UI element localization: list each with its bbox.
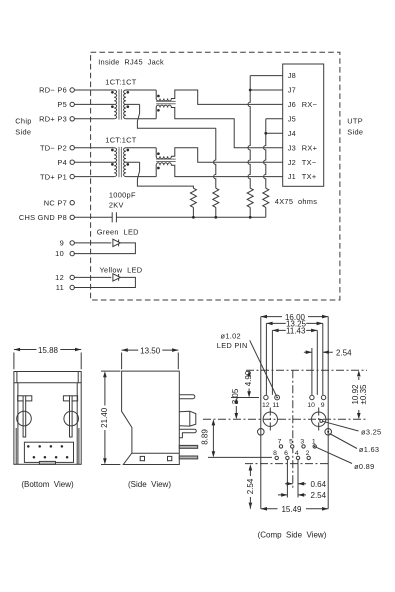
svg-text:11: 11: [56, 283, 64, 292]
svg-text:J7: J7: [288, 86, 296, 95]
svg-text:J2: J2: [288, 158, 296, 167]
svg-text:J3: J3: [288, 143, 296, 152]
svg-text:J8: J8: [288, 71, 296, 80]
svg-text:Inside RJ45 Jack: Inside RJ45 Jack: [98, 58, 164, 67]
svg-text:J5: J5: [288, 114, 296, 123]
svg-text:1000pF: 1000pF: [109, 191, 136, 200]
svg-text:21.40: 21.40: [100, 407, 109, 428]
svg-text:1: 1: [312, 438, 316, 445]
svg-text:Side: Side: [347, 127, 363, 136]
svg-text:4X75 ohms: 4X75 ohms: [275, 197, 317, 206]
svg-text:12: 12: [55, 273, 64, 282]
svg-text:1CT:1CT: 1CT:1CT: [105, 78, 136, 87]
svg-text:Chip: Chip: [15, 117, 31, 126]
svg-text:2: 2: [306, 450, 310, 457]
svg-text:TD− P2: TD− P2: [40, 143, 67, 152]
svg-text:UTP: UTP: [347, 117, 363, 126]
svg-text:9: 9: [60, 239, 64, 248]
svg-text:TD+ P1: TD+ P1: [40, 172, 67, 181]
svg-text:9: 9: [321, 402, 325, 409]
svg-text:11: 11: [272, 402, 279, 409]
svg-text:15.88: 15.88: [38, 346, 59, 355]
svg-text:11.43: 11.43: [286, 327, 306, 336]
svg-text:P5: P5: [57, 100, 67, 109]
svg-text:3: 3: [300, 438, 304, 445]
svg-text:13.50: 13.50: [140, 346, 161, 355]
svg-text:TX+: TX+: [302, 172, 317, 181]
svg-text:10: 10: [307, 402, 315, 409]
svg-text:J4: J4: [288, 129, 296, 138]
svg-text:0.64: 0.64: [311, 480, 327, 489]
svg-text:8.89: 8.89: [200, 429, 209, 445]
svg-text:ø0.89: ø0.89: [354, 462, 374, 471]
svg-text:15.49: 15.49: [281, 505, 302, 514]
svg-text:P4: P4: [57, 158, 67, 167]
svg-text:10: 10: [55, 249, 64, 258]
svg-text:J1: J1: [288, 172, 296, 181]
svg-text:7: 7: [278, 438, 282, 445]
svg-text:4: 4: [295, 450, 299, 457]
svg-text:(Comp Side View): (Comp Side View): [258, 531, 327, 540]
svg-text:RX−: RX−: [302, 100, 317, 109]
svg-text:TX−: TX−: [302, 158, 317, 167]
svg-text:(Side View): (Side View): [128, 480, 171, 489]
svg-text:NC P7: NC P7: [44, 198, 67, 207]
svg-text:ø3.25: ø3.25: [361, 428, 381, 437]
svg-text:2.54: 2.54: [311, 491, 327, 500]
svg-text:Green LED: Green LED: [97, 228, 139, 237]
svg-text:J6: J6: [288, 100, 296, 109]
svg-text:5: 5: [289, 438, 293, 445]
svg-text:(Bottom View): (Bottom View): [21, 480, 74, 489]
svg-text:6: 6: [284, 450, 288, 457]
svg-text:4.90: 4.90: [244, 370, 253, 386]
svg-text:±0.35: ±0.35: [359, 384, 368, 405]
svg-text:Side: Side: [15, 127, 31, 136]
svg-text:RX+: RX+: [302, 143, 317, 152]
svg-text:2KV: 2KV: [109, 200, 124, 209]
svg-text:12: 12: [262, 402, 270, 409]
svg-text:ø1.02: ø1.02: [221, 332, 241, 341]
svg-text:RD+ P3: RD+ P3: [39, 115, 67, 124]
svg-text:ø1.63: ø1.63: [359, 445, 379, 454]
svg-text:8: 8: [273, 450, 277, 457]
svg-text:Yellow LED: Yellow LED: [100, 265, 143, 274]
svg-text:CHS GND P8: CHS GND P8: [19, 213, 67, 222]
svg-text:RD− P6: RD− P6: [39, 86, 67, 95]
svg-text:2.54: 2.54: [246, 478, 255, 494]
svg-text:2.54: 2.54: [336, 348, 352, 357]
svg-text:1CT:1CT: 1CT:1CT: [105, 135, 136, 144]
svg-text:LED PIN: LED PIN: [217, 341, 248, 350]
